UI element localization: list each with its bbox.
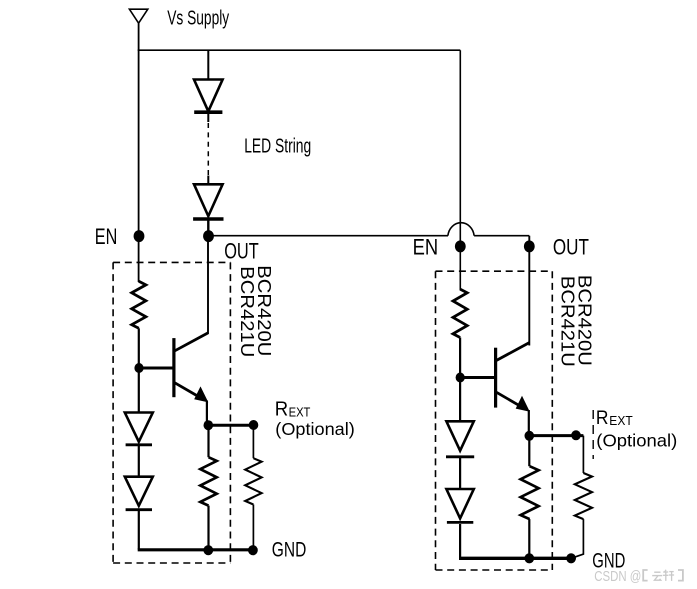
svg-text:R: R [596,408,609,429]
svg-text:EXT: EXT [609,414,633,428]
svg-text:BCR421U: BCR421U [237,266,258,357]
svg-text:BCR421U: BCR421U [558,276,579,367]
svg-text:GND: GND [272,537,307,561]
svg-text:EN: EN [413,235,439,260]
svg-text:OUT: OUT [224,238,259,263]
svg-text:(Optional): (Optional) [596,430,677,450]
svg-text:EXT: EXT [289,404,311,419]
svg-text:(Optional): (Optional) [275,419,355,439]
svg-text:CSDN @: CSDN @ [594,568,641,585]
svg-text:Vs Supply: Vs Supply [167,7,229,30]
svg-text:R: R [275,397,288,420]
svg-text:EN: EN [95,224,118,249]
svg-text:LED String: LED String [244,135,311,158]
svg-text:OUT: OUT [553,235,589,260]
